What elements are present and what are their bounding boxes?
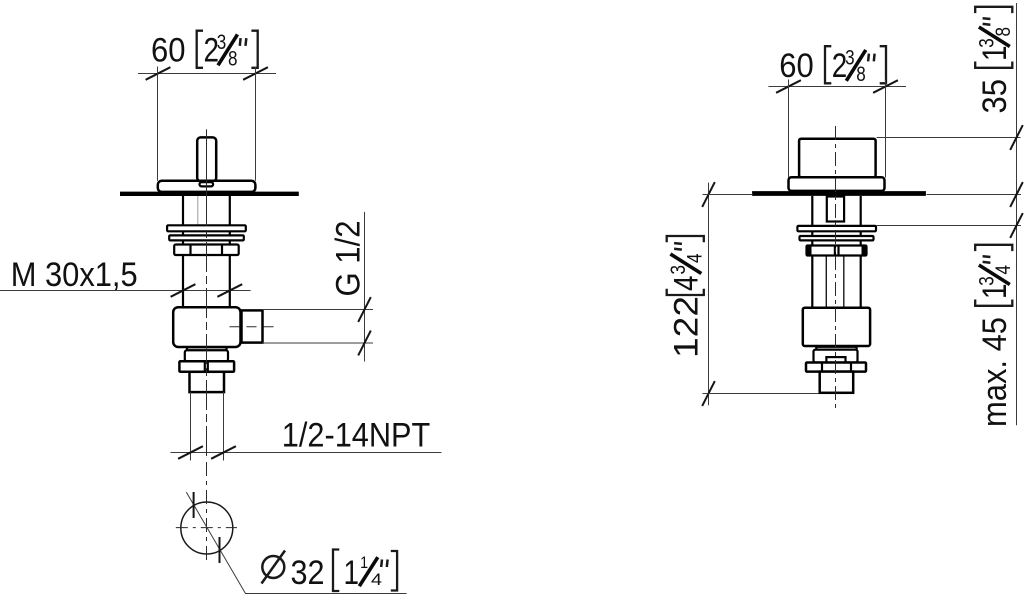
svg-text:122: 122 xyxy=(668,296,706,358)
center line (right view) xyxy=(835,126,837,412)
nut facet lines (right view) xyxy=(835,246,839,256)
svg-text:8: 8 xyxy=(856,63,866,86)
svg-text:32: 32 xyxy=(291,554,325,592)
inner tube line left (right view) xyxy=(825,256,827,307)
svg-text:1: 1 xyxy=(360,553,368,572)
tick at washer xyxy=(1010,213,1023,238)
inner tube line right (right view) xyxy=(843,256,845,307)
diameter tick lower xyxy=(219,537,221,563)
svg-text:60: 60 xyxy=(151,32,186,70)
G 1/2 dimension line xyxy=(364,212,366,362)
tube below deck right line (right view) xyxy=(860,196,862,307)
M30 tick right xyxy=(217,284,242,297)
tick left xyxy=(146,67,171,80)
label 32 [1 1/4"] xyxy=(291,550,398,593)
dimension label 35 [1 3/8"] (rotated) xyxy=(975,7,1015,114)
tick at block top xyxy=(1010,125,1023,150)
inner stem (right view) xyxy=(827,197,844,222)
right dimension line (35 / max 45) xyxy=(1016,3,1018,425)
bottom block (left view) xyxy=(190,372,225,392)
122 extension line top xyxy=(703,194,754,196)
outlet extension line bottom xyxy=(262,342,373,344)
outlet extension line top xyxy=(262,309,373,311)
flange (right view) xyxy=(789,177,885,191)
M30 tick left xyxy=(171,284,196,297)
extension line right xyxy=(255,67,257,181)
svg-text:3: 3 xyxy=(976,276,999,286)
122 extension line bottom xyxy=(703,393,819,395)
extension line left xyxy=(157,67,159,181)
tube below deck left line (right view) xyxy=(811,196,813,307)
center line below deck (left view) xyxy=(206,196,208,460)
dimension label 60 [2 3/8"] (left view) xyxy=(151,31,258,71)
NPT tube right line xyxy=(223,392,225,460)
extension line left (right view 60) xyxy=(788,80,790,178)
122 tick top xyxy=(702,182,715,207)
circle horizontal center line xyxy=(176,527,237,529)
dimension label max. 45 [1 3/4"] (rotated) xyxy=(975,245,1015,427)
tube below deck right side (left view) xyxy=(229,196,231,307)
dimension line 60 (right view) xyxy=(768,86,906,88)
neck below body (left view) xyxy=(187,347,227,350)
svg-text:60: 60 xyxy=(779,47,814,85)
bottom tube (right view) xyxy=(820,372,854,393)
svg-text:4: 4 xyxy=(668,276,706,292)
nut facet line left xyxy=(189,245,191,256)
svg-text:4: 4 xyxy=(683,253,706,263)
nut end cap right (right view) xyxy=(862,246,867,256)
diameter symbol xyxy=(262,551,286,584)
washer 1 (right view) xyxy=(797,226,876,231)
svg-text:3: 3 xyxy=(845,47,855,70)
drain circle (bottom, left view) xyxy=(181,502,233,554)
dimension line 60 (left view) xyxy=(138,73,276,75)
deck / mounting surface (right view) xyxy=(752,191,926,196)
nut end cap left (right view) xyxy=(807,246,812,256)
tick left (right view 60) xyxy=(776,80,801,93)
inner collar detail (right view) xyxy=(826,357,845,362)
mounting nut (left view) xyxy=(174,245,239,256)
valve stem (left view) xyxy=(197,137,216,181)
svg-text:M 30x1,5: M 30x1,5 xyxy=(11,256,138,294)
svg-text:G 1/2: G 1/2 xyxy=(330,221,368,297)
svg-text:35: 35 xyxy=(976,79,1014,114)
svg-text:1: 1 xyxy=(344,554,360,592)
lock nut facet lines (right view) xyxy=(822,363,851,372)
valve body (left view) xyxy=(173,307,240,347)
svg-text:4: 4 xyxy=(371,570,382,589)
svg-text:4: 4 xyxy=(992,265,1015,275)
NPT tick left xyxy=(178,446,203,459)
lock nut (left view) xyxy=(179,361,234,372)
35 extension line (block top) xyxy=(877,137,1021,139)
nut facet line right xyxy=(221,245,223,256)
lock nut with tabs (right view) xyxy=(806,363,866,372)
122 dimension line xyxy=(708,183,710,406)
tick at deck xyxy=(1010,182,1023,207)
inner stem line (left view) xyxy=(197,196,199,225)
svg-text:max. 45: max. 45 xyxy=(976,317,1014,427)
mounting nut (right view) xyxy=(807,246,867,256)
NPT tube left line xyxy=(190,392,192,460)
washer extension line (right) xyxy=(876,225,1021,227)
washer 2 (right view) xyxy=(800,236,874,240)
tick right (right view 60) xyxy=(873,80,898,93)
122 tick bottom xyxy=(702,381,715,406)
M30 leader line xyxy=(0,290,251,292)
lock nut facet lines xyxy=(205,361,208,372)
valve body (right view) xyxy=(803,308,870,346)
G 1/2 tick bottom xyxy=(358,331,371,356)
G 1/2 tick top xyxy=(358,297,371,322)
tube below deck left side (left view) xyxy=(182,196,184,307)
tick right xyxy=(243,67,268,80)
circle vertical center line xyxy=(206,462,208,560)
outlet axis dash-dot xyxy=(230,326,276,328)
collar ring (right view) xyxy=(814,350,858,363)
svg-text:3: 3 xyxy=(217,31,227,54)
flange (left view) xyxy=(158,181,256,192)
svg-text:8: 8 xyxy=(992,27,1015,37)
svg-text:8: 8 xyxy=(228,47,238,70)
neck below body (right view) xyxy=(816,347,856,350)
outlet port (left view) xyxy=(242,310,263,342)
dimension label 60 [2 3/8"] (right view) xyxy=(779,46,886,86)
diameter tick upper xyxy=(193,492,195,518)
deck extension line (right) xyxy=(927,194,1022,196)
flange slot xyxy=(200,182,214,186)
center line (left view, above deck) xyxy=(206,129,208,216)
washer 1 (left view) xyxy=(167,225,246,231)
handle block (right view) xyxy=(799,139,876,178)
NPT dimension line xyxy=(171,452,442,454)
NPT tick right xyxy=(211,446,236,459)
diameter leader line xyxy=(186,492,406,593)
svg-text:3: 3 xyxy=(976,38,999,48)
dimension label 122 [4 3/4"] (rotated) xyxy=(667,236,707,358)
collar ring (left view) xyxy=(185,350,228,361)
extension line right (right view 60) xyxy=(885,80,887,178)
washer 2 (left view) xyxy=(169,235,244,240)
deck / mounting surface (left view) xyxy=(120,192,299,196)
svg-text:1/2-14NPT: 1/2-14NPT xyxy=(282,417,431,455)
